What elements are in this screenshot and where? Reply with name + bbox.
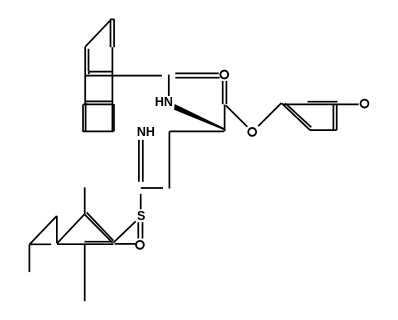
svg-text:HN: HN xyxy=(155,95,173,109)
svg-text:S: S xyxy=(137,209,145,223)
svg-text:NH: NH xyxy=(137,125,155,139)
